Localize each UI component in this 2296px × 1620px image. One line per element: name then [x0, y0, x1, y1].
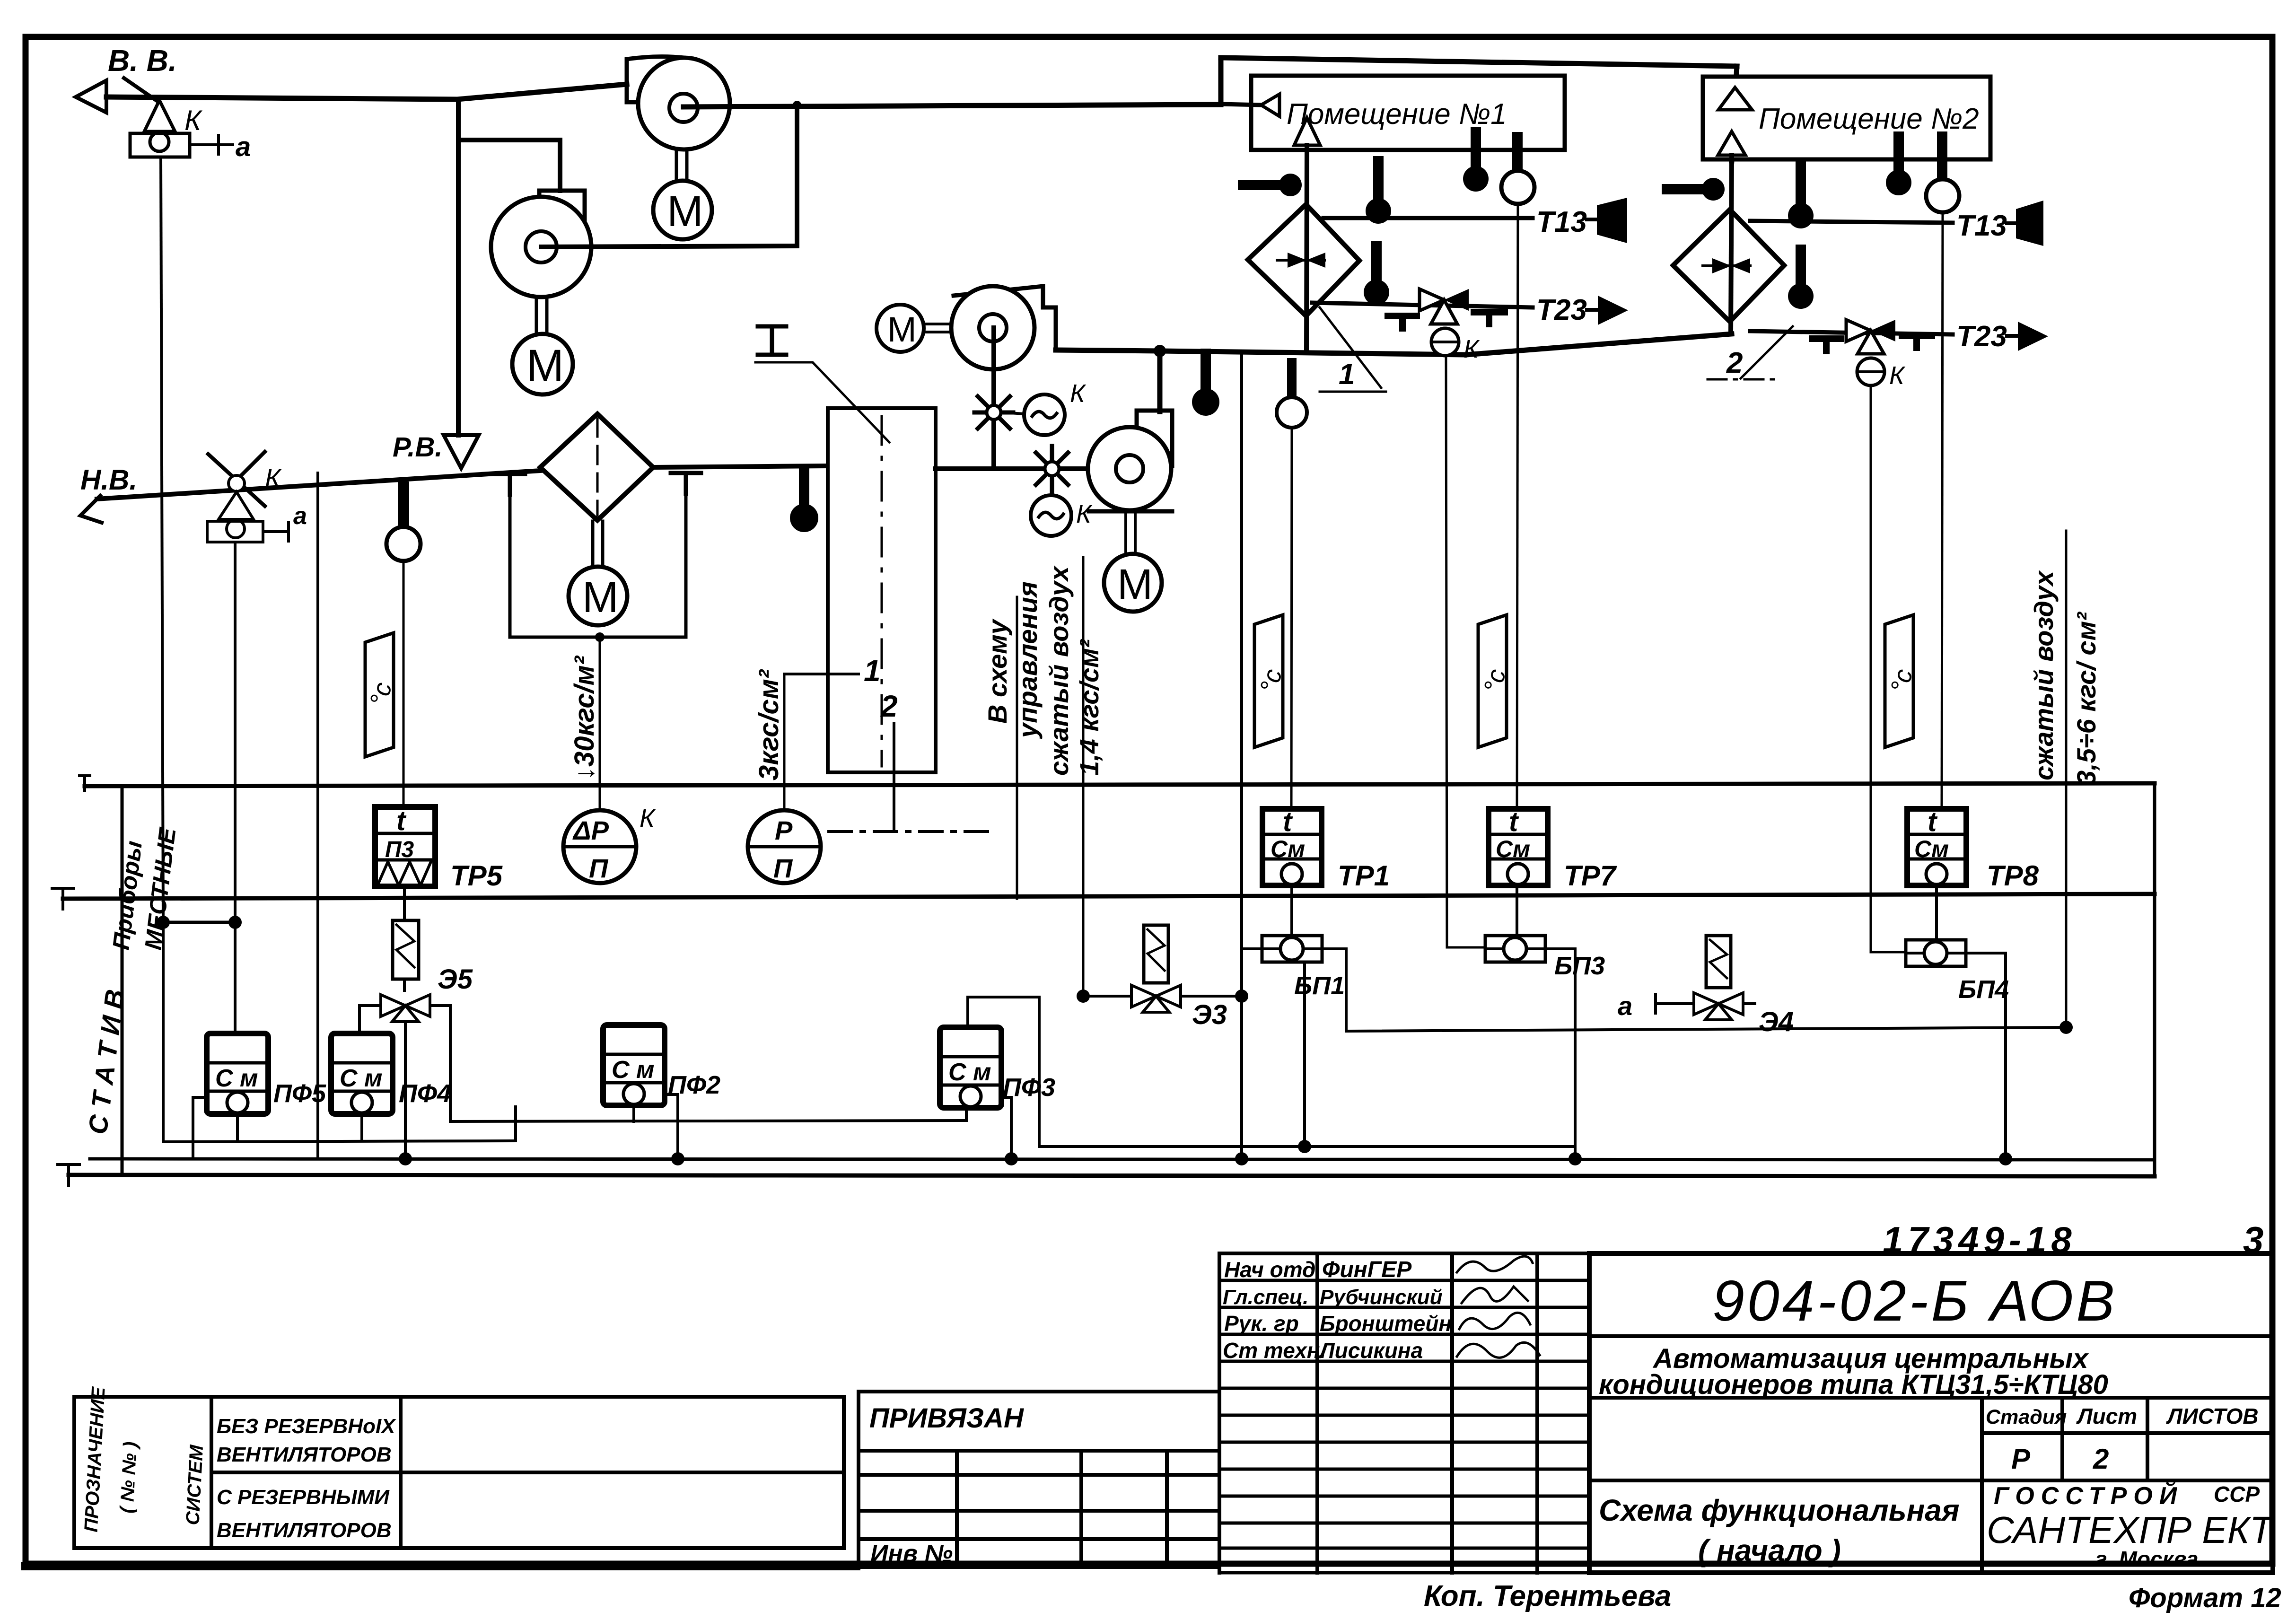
valve E4 [1694, 993, 1743, 1020]
svg-text:ΔР: ΔР [572, 815, 609, 845]
table signatures [1219, 1253, 1589, 1573]
svg-text:Гл.спец.: Гл.спец. [1223, 1286, 1308, 1309]
triangle exhaust room2 [1718, 88, 1752, 110]
svg-text:П3: П3 [385, 837, 414, 862]
valve E3 [1131, 985, 1181, 1012]
filter shaft [593, 521, 603, 566]
svg-text:Р: Р [775, 815, 793, 845]
triangle supply room2 [1718, 131, 1745, 155]
wire room1 exhaust stub [1221, 104, 1261, 105]
svg-text:Э5: Э5 [438, 964, 473, 995]
svg-text:Схема функциональная: Схема функциональная [1599, 1493, 1960, 1527]
wire filter motor loop [510, 494, 686, 637]
actuator K room1 [1431, 328, 1480, 363]
wire E5 left to PF4 [359, 1006, 381, 1033]
svg-text:2: 2 [1726, 347, 1743, 379]
sensor white room2 [1926, 137, 1959, 212]
wire fan C inlet drop [991, 328, 996, 469]
rack left edge [121, 786, 124, 1175]
junction E3 bus [1235, 1152, 1248, 1165]
svg-text:См: См [1914, 836, 1949, 862]
wire B.B. return line to room2 [1221, 58, 1737, 66]
junction PF2 bus [671, 1152, 684, 1165]
fan A impeller [638, 58, 730, 149]
svg-text:ПРИВЯЗАН: ПРИВЯЗАН [869, 1403, 1024, 1434]
controller SM ПФ2 [603, 1025, 665, 1105]
svg-text:M: M [582, 573, 619, 622]
bowtie inside diamond 2 [1703, 258, 1750, 273]
valve K2 body [207, 475, 263, 542]
arrow T13 room2 [2007, 201, 2043, 246]
wire star valve to K circle [1002, 412, 1024, 414]
triangle supply room1 [1294, 118, 1320, 145]
sensor TP5 bulb [386, 527, 421, 561]
wire H.B. intake line [97, 471, 540, 499]
filter centerline [596, 419, 599, 516]
svg-text:3,5÷6 кгс/ см²: 3,5÷6 кгс/ см² [2071, 612, 2101, 785]
label bez rezervnyh [217, 1415, 396, 1466]
bowtie inside diamond 1 [1277, 253, 1325, 268]
wire W2424 [1039, 1145, 1575, 1148]
wire 2371 horizontal [450, 1121, 966, 1121]
heat exchanger diamond 2 [1673, 210, 1784, 322]
fan B impeller [491, 197, 591, 297]
junction PF3 bus [1005, 1152, 1018, 1165]
positioner E5 [393, 920, 419, 979]
svg-text:Т13: Т13 [1536, 206, 1587, 238]
T bracket left room2 [1812, 339, 1841, 351]
rack right edge [2153, 783, 2156, 1176]
svg-text:С м: С м [948, 1059, 991, 1086]
wire BP3 right [1545, 949, 1575, 1147]
svg-text:ПФ4: ПФ4 [399, 1079, 451, 1108]
svg-text:К: К [1889, 361, 1906, 390]
wire P sensor riser [783, 674, 786, 810]
rack band line top left tick [79, 776, 90, 791]
wire K1 drop to junction [161, 157, 163, 922]
valve star heater line [1033, 446, 1071, 491]
wire W2424 drop to bus [1574, 1147, 1577, 1159]
controller SM ПФ5 [207, 1033, 268, 1114]
valve star fan C [974, 390, 1013, 435]
label s rezervnymi [217, 1486, 392, 1542]
filter diamond [540, 414, 653, 520]
table systems box [74, 1397, 844, 1548]
wire room2 duct [1731, 155, 1732, 334]
thermometer room1 lower [1364, 246, 1389, 305]
wire B.B. drop to P.B. [456, 100, 461, 435]
arrow T13 room1 [1587, 198, 1627, 243]
wire bus stativ [90, 1159, 2155, 1160]
rack band line bottom [63, 894, 2155, 899]
label degC TP1 [1254, 615, 1288, 747]
wire 347 down [163, 922, 516, 1142]
svg-text:БЕЗ РЕЗЕРВНоIХ: БЕЗ РЕЗЕРВНоIХ [217, 1415, 396, 1438]
svg-text:Р.В.: Р.В. [393, 432, 443, 463]
instrument TP7 [1489, 806, 1548, 885]
wire T13 room2 [1750, 221, 1953, 223]
svg-text:Стадия: Стадия [1986, 1406, 2067, 1428]
svg-text:1: 1 [864, 654, 881, 688]
junction supply duct fan D [1154, 345, 1166, 357]
wire duct sensor to TP1 [1277, 363, 1307, 809]
junction E3 wire [1235, 990, 1248, 1003]
wire junction 347-497 [157, 916, 242, 929]
svg-text:( начало ): ( начало ) [1698, 1533, 1841, 1567]
svg-text:С РЕЗЕРВНЫМИ: С РЕЗЕРВНЫМИ [217, 1486, 390, 1509]
junction W2424 bus [1569, 1152, 1582, 1165]
rack bottom line [69, 1175, 2155, 1176]
svg-text:В схему: В схему [982, 618, 1012, 724]
svg-text:ПФ5: ПФ5 [273, 1079, 326, 1108]
junction E5 bus [399, 1152, 412, 1165]
thermometer room2 lower [1788, 250, 1814, 309]
wire TP5 sensor drop [403, 561, 405, 810]
wire T13 room1 [1323, 216, 1533, 220]
thermometer room1 inbox [1463, 132, 1489, 192]
wire PF5 bottom [236, 1114, 239, 1141]
signature finger [1457, 1256, 1533, 1272]
wire room2 T13 sensor to TP8 [1942, 212, 1943, 809]
wire supply duct tap to bus [1240, 352, 1243, 1159]
indicator ~K lower [1031, 495, 1093, 536]
wire E3 left to air [1083, 995, 1131, 998]
valve 3way room2 [1846, 320, 1895, 354]
label 1 with leader [784, 654, 881, 688]
svg-text:К: К [1463, 335, 1480, 363]
label I [755, 326, 889, 442]
signature rubchinskiy [1462, 1287, 1528, 1303]
svg-text:кондиционеров типа КТЦ31,5÷КТ: кондиционеров типа КТЦ31,5÷КТЦ80 [1599, 1369, 2108, 1400]
svg-text:К: К [1076, 500, 1093, 528]
wire H.B. intake arrow [80, 496, 102, 523]
svg-text:Инв №: Инв № [870, 1540, 953, 1567]
sheet bottom heavy line [26, 1562, 856, 1570]
fan D impeller [1088, 427, 1171, 510]
svg-text:ТР5: ТР5 [450, 860, 503, 892]
junction BP4 bus [1999, 1152, 2012, 1165]
wire E4 right [1743, 1002, 1755, 1005]
svg-text:САНТЕХПР ЕКТ: САНТЕХПР ЕКТ [1987, 1509, 2275, 1551]
svg-text:M: M [526, 341, 564, 391]
svg-text:Э4: Э4 [1759, 1007, 1794, 1037]
svg-text:ТР1: ТР1 [1338, 860, 1390, 892]
arrow T23 room1 [1587, 296, 1628, 325]
wire TP1 to BP1 [1290, 885, 1293, 936]
wire room1 valve actuator to BP3 [1446, 356, 1485, 947]
valve K2 damper blades [208, 452, 265, 506]
svg-text:БП3: БП3 [1554, 952, 1605, 980]
fan B shaft [536, 297, 547, 333]
thermometer after filter [790, 471, 818, 532]
fan C impeller [951, 286, 1034, 369]
svg-text:Формат 12: Формат 12 [2129, 1583, 2281, 1613]
wire E3 right down bus [1181, 995, 1242, 998]
svg-text:Ст техн.: Ст техн. [1223, 1338, 1326, 1363]
svg-text:См: См [1271, 836, 1305, 862]
svg-text:a: a [1618, 991, 1632, 1021]
wire fan B outlet [541, 105, 797, 247]
instrument TP8 [1907, 806, 1966, 885]
svg-text:ТР7: ТР7 [1564, 860, 1617, 892]
wire PF5 left [193, 1097, 207, 1159]
wire K2 to a [263, 522, 289, 541]
valve P.B. triangle [444, 435, 479, 468]
fan D shaft [1126, 511, 1135, 554]
controller SM ПФ3 [940, 1027, 1001, 1108]
label degC TP5 [365, 633, 397, 757]
fan A casing [627, 57, 684, 102]
wire PF4 bottom to bus wire [362, 1107, 516, 1141]
svg-text:ВЕНТИЛЯТОРОВ: ВЕНТИЛЯТОРОВ [217, 1519, 392, 1542]
svg-text:К: К [184, 105, 203, 136]
svg-text:a: a [236, 131, 251, 162]
svg-text:Н.В.: Н.В. [80, 464, 137, 496]
svg-text:ССР: ССР [2214, 1482, 2260, 1506]
wire B.B. exhaust arrow [76, 80, 106, 113]
svg-text:t: t [396, 806, 407, 836]
svg-text:П: П [589, 853, 609, 883]
svg-text:С м: С м [612, 1056, 654, 1084]
wire room2 valve actuator to BP4 [1871, 385, 1906, 952]
title block frame [1589, 1253, 2273, 1573]
junction fan B riser [793, 101, 801, 109]
wire PF2 right to bus [665, 1095, 678, 1159]
wire E4 left a [1618, 991, 1694, 1021]
wire PF2 circle drop [632, 1105, 635, 1121]
heater block I [828, 408, 936, 772]
rack bottom left tick [58, 1165, 79, 1185]
valve E5 [381, 995, 430, 1022]
svg-text:1: 1 [1339, 358, 1355, 391]
svg-text:СИСТЕМ: СИСТЕМ [182, 1444, 207, 1525]
heater centerline [881, 416, 883, 766]
label degC TP7 [1478, 615, 1511, 747]
valve 3way room1 [1420, 289, 1469, 324]
svg-text:С м: С м [215, 1065, 258, 1092]
fan D hub [1116, 455, 1143, 482]
positioner E3 [1144, 925, 1168, 983]
block BP3 [1485, 936, 1545, 962]
svg-text:t: t [1283, 806, 1293, 837]
controller SM ПФ4 [331, 1033, 393, 1114]
svg-text:К: К [1070, 379, 1087, 408]
wire to control circuit [1016, 597, 1018, 899]
svg-text:Лисикина: Лисикина [1318, 1338, 1423, 1363]
svg-text:ГОССТРОЙ: ГОССТРОЙ [1994, 1481, 2183, 1510]
lollipop horiz room2 [1667, 178, 1725, 201]
motor M fan A [653, 181, 712, 239]
svg-text:904-02-Б АОВ: 904-02-Б АОВ [1712, 1269, 2118, 1333]
instrument TP1 [1262, 806, 1322, 885]
svg-text:Лист: Лист [2076, 1404, 2137, 1428]
svg-text:сжатый воздух: сжатый воздух [2029, 569, 2059, 780]
svg-text:г. Москва: г. Москва [2095, 1547, 2199, 1571]
wire PF3 right to bus [1001, 1097, 1011, 1159]
svg-text:↓30кгс/м²: ↓30кгс/м² [569, 655, 600, 780]
arrow T23 room2 [2007, 322, 2048, 351]
room box 1 [1251, 76, 1565, 150]
svg-text:С м: С м [340, 1065, 382, 1092]
svg-text:П: П [773, 853, 793, 883]
svg-text:Рук. гр: Рук. гр [1224, 1311, 1299, 1336]
svg-text:M: M [1117, 561, 1153, 608]
svg-text:( № № ): ( № № ) [116, 1441, 141, 1514]
svg-text:ТР8: ТР8 [1987, 860, 2039, 892]
fan D casing [1089, 411, 1172, 511]
motor M filter [569, 567, 627, 625]
junction filter loop [595, 632, 605, 642]
svg-text:См: См [1496, 836, 1530, 862]
wire T23 room1 [1312, 303, 1533, 307]
instrument TP5 [375, 806, 435, 886]
svg-text:Т23: Т23 [1956, 320, 2007, 353]
thermometer room2 upper [1788, 166, 1814, 228]
svg-text:БП1: БП1 [1294, 972, 1345, 1000]
motor M fan C [876, 305, 924, 352]
valve K1 damper blade [124, 78, 156, 100]
svg-text:ФинГЕР: ФинГЕР [1322, 1257, 1412, 1282]
svg-text:ВЕНТИЛЯТОРОВ: ВЕНТИЛЯТОРОВ [217, 1443, 392, 1466]
fan B casing [539, 191, 585, 245]
motor M fan B [512, 334, 573, 394]
instrument P/P [748, 810, 821, 883]
junction E3 air [1077, 990, 1090, 1003]
positioner E4 [1706, 936, 1731, 988]
wire BP1 right [1322, 949, 2066, 1031]
svg-text:К: К [265, 463, 282, 493]
wire BP1 left [1242, 947, 1262, 950]
svg-text:управления: управления [1013, 581, 1043, 739]
svg-text:Т13: Т13 [1956, 210, 2007, 242]
wire T23 room2 [1750, 331, 1953, 334]
signature lisikina [1457, 1342, 1540, 1357]
wire H.B. after filter [653, 466, 828, 467]
wire TP7 to BP3 [1516, 885, 1518, 936]
wire dP sensor line [599, 637, 601, 810]
svg-text:ЛИСТОВ: ЛИСТОВ [2166, 1404, 2259, 1428]
svg-text:Т23: Т23 [1536, 294, 1587, 326]
svg-text:Помещение №2: Помещение №2 [1759, 103, 1979, 135]
triangle exhaust room1 [1261, 94, 1279, 116]
T bracket right room1 [1474, 312, 1505, 324]
heat exchanger diamond 1 [1248, 204, 1359, 316]
wire BP4 right [1966, 953, 2006, 1159]
junction air2 wire [2059, 1021, 2073, 1034]
wire compressed air 3.5-6 [2065, 531, 2068, 1027]
thermometer room2 inbox [1886, 137, 1911, 195]
sensor TP5 stem [398, 487, 409, 527]
svg-text:Нач отд: Нач отд [1224, 1257, 1315, 1282]
wire E5 right to wire2371 [430, 1006, 450, 1121]
svg-text:Р: Р [2011, 1443, 2031, 1475]
wire supply duct fanC to rooms [1056, 334, 1732, 355]
wire TP8 to BP4 [1935, 885, 1938, 940]
rack band bottom left tick [52, 888, 74, 909]
junction PF5 bus [193, 1158, 193, 1159]
svg-text:t: t [1509, 806, 1519, 837]
svg-text:Э3: Э3 [1192, 999, 1227, 1030]
svg-text:2: 2 [2093, 1443, 2109, 1475]
fan C shaft [924, 324, 952, 332]
wire TP5 to E5 [403, 886, 406, 990]
T bracket left room1 [1388, 316, 1417, 328]
T bracket right room2 [1902, 336, 1932, 348]
svg-text:сжатый воздух: сжатый воздух [1044, 565, 1074, 776]
leader 1 [1320, 307, 1386, 392]
wire B.B. to fan B inlet [458, 140, 560, 191]
motor M fan D [1104, 554, 1162, 612]
wire star valve 2 to K circle [1051, 477, 1053, 495]
wire H.B. drop x672 [316, 473, 319, 1159]
svg-text:Бронштейн: Бронштейн [1320, 1311, 1452, 1336]
wire PF3 circle drop [965, 1108, 968, 1121]
svg-text:M: M [887, 310, 917, 349]
svg-text:К: К [640, 804, 656, 832]
svg-text:a: a [293, 502, 307, 530]
fan A shaft [676, 150, 687, 180]
svg-text:Коп. Терентьева: Коп. Терентьева [1424, 1580, 1671, 1612]
fan A hub [669, 94, 698, 122]
T bracket right of filter [671, 473, 701, 494]
valve K1 body [130, 100, 190, 157]
label degC TP8 [1885, 615, 1918, 747]
svg-text:M: M [667, 187, 703, 236]
wire E5 bottom to bus [404, 1022, 407, 1159]
actuator K room2 [1857, 358, 1906, 390]
svg-text:В. В.: В. В. [108, 44, 177, 78]
wire BP1 drop [1303, 962, 1306, 1147]
wire room2 exhaust drop [1732, 66, 1737, 161]
wire fan D riser to supply duct [1157, 351, 1163, 412]
block BP4 [1906, 940, 1966, 966]
rack band line top [85, 783, 2155, 786]
svg-text:2: 2 [880, 689, 898, 723]
wire room1 duct [1306, 145, 1307, 352]
leader 2 [1708, 326, 1793, 379]
fan C hub [979, 314, 1007, 342]
signature bronshteyn [1459, 1313, 1530, 1329]
wire K2 drop [234, 542, 237, 922]
thermometer on supply duct [1192, 354, 1219, 416]
wire B.B. exhaust main line [106, 84, 627, 99]
thermometer room1 upper [1366, 161, 1391, 224]
svg-text:t: t [1928, 806, 1938, 837]
fan B hub [526, 231, 557, 263]
wire room1 T13 sensor to TP7 [1517, 204, 1518, 809]
wire PF3 top loop [968, 997, 1039, 1147]
wire K1 to a [190, 135, 233, 154]
svg-text:БП4: БП4 [1958, 975, 2009, 1004]
lollipop horiz room1 [1243, 174, 1302, 196]
block BP1 [1262, 936, 1322, 962]
wire B.B. riser at x2581 [1218, 58, 1224, 103]
wire compressed air 1.4 [1082, 557, 1085, 993]
svg-text:1,4 кгс/см²: 1,4 кгс/см² [1074, 639, 1104, 776]
wire heater outlet to fan D [936, 466, 1088, 471]
wire fan A outlet duct [684, 105, 1221, 107]
svg-text:3кгс/см²: 3кгс/см² [754, 669, 784, 780]
junction W2424 BP1 [1298, 1140, 1311, 1153]
sensor white room1 [1501, 137, 1534, 204]
table privyazan [859, 1392, 1219, 1567]
svg-text:Рубчинский: Рубчинский [1320, 1286, 1443, 1309]
T bracket left of filter [496, 474, 525, 495]
label 2 with leader [829, 689, 991, 832]
instrument dP/P [563, 810, 636, 883]
indicator ~K upper [1024, 379, 1087, 435]
svg-text:Помещение №1: Помещение №1 [1287, 98, 1507, 131]
